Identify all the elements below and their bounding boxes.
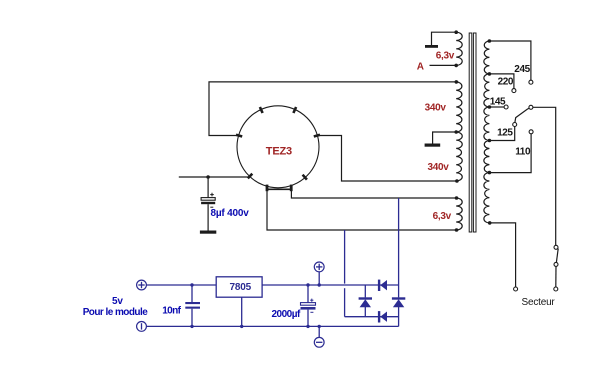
svg-text:Pour le module: Pour le module	[83, 307, 149, 318]
terminal 125	[513, 123, 517, 127]
terminal secteur left	[514, 287, 518, 291]
svg-text:A: A	[417, 61, 424, 72]
terminal plus left	[137, 280, 147, 290]
svg-text:10nf: 10nf	[162, 305, 181, 316]
ground bar 6.3v top	[425, 32, 456, 48]
wire HT rail left	[179, 176, 250, 178]
diode D2 left	[359, 285, 372, 317]
pin 4	[314, 135, 320, 137]
ground C1	[200, 231, 216, 234]
node plus right	[318, 283, 321, 286]
svg-text:7805: 7805	[230, 282, 252, 293]
switch secteur	[554, 245, 558, 291]
terminal 220	[512, 89, 516, 93]
node P top	[488, 39, 492, 43]
node W4 top	[455, 196, 459, 200]
terminal 110	[529, 130, 533, 134]
node 2000uf bottom	[306, 325, 309, 328]
node P bottom	[488, 221, 492, 225]
diode D1 top	[378, 280, 387, 291]
wire primary bottom	[490, 223, 516, 287]
transformer core	[469, 33, 472, 232]
svg-text:6,3v: 6,3v	[433, 211, 452, 222]
winding W1 secondary 6.3v top	[456, 32, 462, 65]
tube socket TEZ3	[237, 106, 319, 188]
node center tap	[454, 130, 458, 134]
wire heater top	[291, 189, 456, 198]
capacitor C1 8uf 400v	[201, 177, 215, 231]
svg-text:125: 125	[497, 128, 513, 139]
pin 5	[303, 175, 307, 180]
wire heater bottom	[267, 190, 457, 230]
ground bar center tap	[425, 132, 457, 147]
node tap 110	[488, 171, 492, 175]
wire 7805 gnd	[241, 297, 243, 326]
regulator 7805	[216, 277, 262, 297]
node 2000uf top	[306, 283, 309, 286]
wire heater chord	[267, 188, 291, 190]
wire AC input 2	[398, 198, 400, 285]
node cap junction	[206, 175, 210, 179]
terminal plus right	[314, 262, 324, 285]
node W2 top	[455, 80, 459, 84]
winding W4 secondary 6.3v lower	[456, 198, 462, 230]
diode D4 bottom	[378, 311, 387, 322]
wire plate right	[318, 136, 457, 182]
winding W2 secondary 340v upper	[456, 82, 462, 132]
terminal minus right	[314, 326, 324, 347]
wire AC input 1	[344, 230, 346, 284]
terminal 245	[529, 80, 533, 84]
pin 2	[260, 107, 263, 113]
node tap 220	[488, 72, 492, 76]
svg-text:Secteur: Secteur	[522, 297, 556, 308]
terminal 145	[504, 105, 508, 109]
wire 7805 out rail	[262, 284, 399, 286]
node tap 125	[488, 139, 492, 143]
selector arm	[515, 108, 529, 122]
pin 3	[293, 107, 296, 113]
node W4 bottom	[455, 228, 459, 232]
wire tap 145	[489, 106, 504, 108]
svg-text:5v: 5v	[112, 296, 123, 307]
wire tap 220	[489, 74, 514, 89]
svg-text:340v: 340v	[425, 103, 447, 114]
capacitor 2000uf	[301, 285, 316, 326]
node minus right	[318, 325, 321, 328]
pin 7	[266, 185, 269, 192]
svg-text:6,3v: 6,3v	[436, 51, 455, 62]
svg-text:340v: 340v	[428, 162, 450, 173]
wire tap 245	[489, 41, 531, 80]
svg-text:110: 110	[515, 146, 531, 157]
pin 8	[248, 174, 253, 179]
selector contact	[529, 105, 533, 109]
terminal out left	[137, 322, 147, 332]
diode D3 right	[392, 285, 405, 326]
wire minus rail	[146, 325, 399, 327]
node 10nf top	[190, 283, 193, 286]
svg-text:TEZ3: TEZ3	[266, 146, 292, 158]
wire plus rail	[146, 284, 216, 286]
node 7805 gnd	[240, 325, 243, 328]
svg-text:2000µf: 2000µf	[272, 309, 302, 320]
svg-text:220: 220	[498, 76, 514, 87]
winding P primary	[484, 41, 490, 223]
wire bridge bottom side	[345, 316, 399, 318]
pin 6	[290, 185, 293, 192]
node tap 145	[488, 105, 492, 109]
svg-text:245: 245	[514, 64, 530, 75]
wire tap 110	[489, 134, 531, 173]
pin 1	[236, 135, 242, 137]
svg-text:145: 145	[490, 96, 506, 107]
wire plate left	[209, 82, 456, 136]
wire selector to secteur	[533, 107, 556, 245]
wire tap 125	[489, 127, 514, 141]
node 10nf bottom	[190, 325, 193, 328]
node W3 bottom	[455, 179, 459, 183]
winding W3 secondary 340v lower	[456, 132, 462, 181]
wire terminal A	[430, 64, 457, 66]
capacitor 10nf	[185, 285, 200, 326]
svg-text:8µf 400v: 8µf 400v	[211, 208, 250, 219]
